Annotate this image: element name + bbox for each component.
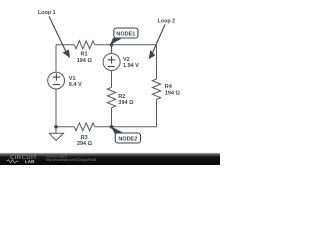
wire middle bottom stub (111, 108, 113, 127)
svg-text:Loop 2: Loop 2 (158, 18, 176, 24)
svg-text:R1: R1 (80, 52, 87, 58)
svg-text:9.4 V: 9.4 V (69, 82, 82, 88)
svg-text:194 Ω: 194 Ω (77, 58, 93, 64)
label NODE1 box (114, 28, 138, 38)
voltage source V2 (103, 54, 120, 71)
node junction dot NODE1 (110, 43, 114, 47)
label NODE2 box (115, 133, 140, 143)
voltage source V1 (48, 72, 65, 89)
annotation Loop 1 arrowhead (63, 50, 71, 59)
svg-text:294 Ω: 294 Ω (77, 141, 93, 147)
wire right vertical lower (156, 99, 158, 126)
wire middle top stub (111, 45, 113, 54)
svg-text:R2: R2 (118, 94, 125, 100)
annotation Loop 2 leader (153, 25, 165, 53)
svg-text:NODE2: NODE2 (118, 136, 137, 142)
node junction dot NODE2 (110, 125, 114, 129)
svg-text:LAB: LAB (25, 159, 35, 164)
svg-text:http://circuitlab.com/c32azfp2: http://circuitlab.com/c32azfp29cu8 (46, 158, 96, 162)
svg-text:1.94 V: 1.94 V (123, 63, 139, 69)
wire bottom-right segment (95, 126, 157, 128)
svg-text:R4: R4 (165, 84, 173, 90)
wire top-left segment (56, 44, 74, 46)
annotation Loop 1 leader (49, 16, 66, 51)
node junction dot bottom (54, 125, 58, 129)
resistor R3 (74, 123, 94, 131)
ground (49, 127, 64, 141)
resistor R2 (107, 87, 115, 107)
svg-text:R3: R3 (81, 135, 88, 141)
svg-text:394 Ω: 394 Ω (118, 100, 134, 106)
wire top-right segment (95, 44, 157, 46)
wire left vertical lower (55, 89, 57, 127)
wire middle mid stub (111, 71, 113, 88)
annotation Loop 2 arrowhead (149, 50, 155, 59)
resistor R4 (152, 79, 160, 99)
svg-text:194 Ω: 194 Ω (165, 90, 181, 96)
wire right vertical upper (156, 45, 158, 79)
wire bottom-left segment (56, 126, 74, 128)
svg-text:NODE1: NODE1 (116, 32, 135, 38)
svg-text:Loop 1: Loop 1 (38, 10, 56, 16)
wire left vertical upper (55, 45, 57, 72)
label NODE2 tail (111, 126, 125, 133)
label NODE1 tail (110, 38, 123, 45)
resistor R1 (74, 41, 94, 49)
